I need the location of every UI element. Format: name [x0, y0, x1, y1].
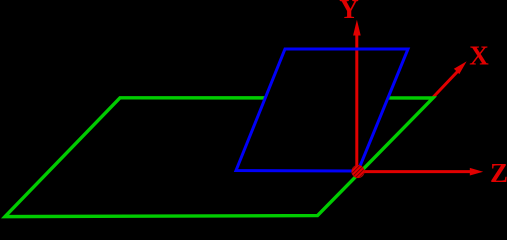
X axis arrowhead — [454, 61, 467, 74]
X axis (visible segment beyond green plane corner) — [430, 71, 458, 101]
svg-text:Z: Z — [490, 158, 507, 188]
origin dot — [352, 165, 365, 178]
green plane — [5, 98, 433, 217]
Z axis arrowhead — [470, 168, 483, 176]
Z axis — [358, 170, 471, 173]
svg-text:Y: Y — [339, 0, 359, 24]
blue plane — [236, 49, 408, 171]
Y axis arrowhead — [353, 20, 361, 36]
Y axis — [355, 34, 358, 171]
blue plane top edge over Y axis — [346, 48, 368, 51]
svg-text:X: X — [469, 41, 489, 71]
